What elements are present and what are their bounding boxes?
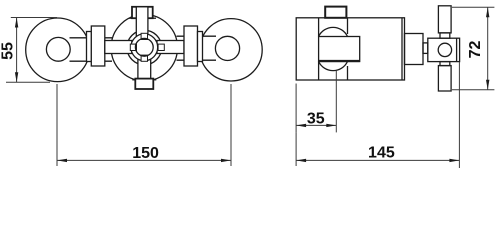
handle hub square — [428, 38, 460, 61]
handle bottom blade — [438, 66, 451, 91]
dim 145 left arrow — [296, 159, 306, 162]
handle top blade — [438, 6, 451, 33]
dim 72 dimension line — [487, 7, 489, 90]
left supply pipe bottom line — [70, 60, 113, 62]
dim 145 right arrow — [449, 159, 459, 162]
handle stem connector — [405, 34, 424, 65]
svg-text:150: 150 — [132, 145, 159, 162]
dim 150 left arrow — [57, 159, 67, 162]
handle hub square inner line — [456, 38, 458, 61]
hub spoke tab left — [130, 44, 136, 50]
cross handle top arm cap right foot — [153, 17, 156, 19]
dim 72 bottom arrow — [486, 80, 489, 90]
dim 55 dimension line — [16, 18, 18, 83]
hub inner circle — [135, 38, 153, 56]
cross handle top arm cap left foot — [129, 17, 132, 19]
cartridge left line upper — [318, 18, 320, 37]
handle bottom neck — [440, 62, 450, 66]
cartridge right line lower — [347, 66, 349, 80]
bonnet intermediate circle — [127, 30, 162, 65]
dim 145 dimension line — [296, 159, 459, 161]
cross handle right arm shaft — [157, 41, 184, 54]
right supply pipe bottom line — [177, 59, 217, 61]
cross handle top arm cap — [132, 7, 153, 18]
handle top neck — [440, 33, 450, 38]
cartridge dome top arc — [319, 27, 348, 36]
right wall flange inner circle — [215, 36, 239, 60]
dim 150 right extension line — [230, 84, 232, 166]
right wall flange outer circle — [200, 19, 262, 81]
cross handle top arm shaft — [136, 7, 148, 48]
hub spoke tab bottom — [141, 55, 147, 61]
svg-text:145: 145 — [368, 145, 395, 162]
cross handle bottom arm shaft — [138, 48, 151, 88]
hub outer circle — [131, 34, 158, 61]
svg-text:55: 55 — [0, 42, 17, 60]
cross handle left arm brim — [87, 32, 92, 62]
dim 35 right arrow — [326, 124, 336, 127]
svg-text:35: 35 — [307, 110, 325, 127]
dim 55 bottom extension line — [6, 81, 50, 83]
dim 72 top extension line — [452, 6, 494, 8]
handle stem tab — [423, 43, 428, 54]
escutcheon big circle — [111, 15, 177, 81]
cross handle right arm cap — [184, 26, 198, 66]
left supply pipe top line — [70, 37, 113, 39]
bonnet flange bottom edge thick — [319, 60, 360, 62]
cross handle bottom arm cap right foot — [153, 79, 156, 81]
dim 35 left arrow — [296, 124, 306, 127]
dim 145 left extension line — [295, 132, 297, 166]
left wall flange outer circle — [26, 18, 90, 82]
dim 72 bottom extension line — [452, 89, 494, 91]
cartridge left line lower — [318, 62, 320, 81]
bonnet flange rectangle — [319, 37, 360, 62]
dim 55 top arrow — [15, 18, 18, 28]
hub spoke tab right — [158, 44, 164, 50]
handle hub circle — [438, 43, 451, 56]
dim 72 top arrow — [486, 7, 489, 17]
valve body rectangle — [296, 18, 404, 80]
cross handle left arm cap — [91, 26, 105, 66]
right supply pipe top line — [177, 35, 217, 37]
dim 150 left extension line — [56, 84, 58, 166]
body end cap inner line — [401, 18, 403, 80]
dim 35 left extension line — [295, 84, 297, 133]
dim 145 right extension line — [458, 62, 460, 168]
dim 150 dimension line — [57, 159, 231, 161]
dim 35 right extension line — [335, 71, 337, 133]
cross handle bottom arm cap — [135, 79, 153, 89]
svg-text:72: 72 — [467, 41, 484, 59]
dim 35 dimension line — [296, 124, 336, 126]
left wall flange inner circle — [46, 37, 70, 61]
dim 55 bottom arrow — [15, 72, 18, 82]
top inlet boss — [325, 7, 346, 18]
dim 150 right arrow — [221, 159, 231, 162]
cross handle right arm brim — [198, 32, 203, 62]
cartridge dome bottom arc — [319, 62, 348, 71]
cross handle left arm shaft — [105, 41, 132, 54]
cartridge right line upper — [347, 18, 349, 34]
hub spoke tab top — [141, 33, 147, 39]
dim 55 top extension line — [11, 17, 57, 19]
cross handle bottom arm cap left foot — [132, 79, 135, 81]
